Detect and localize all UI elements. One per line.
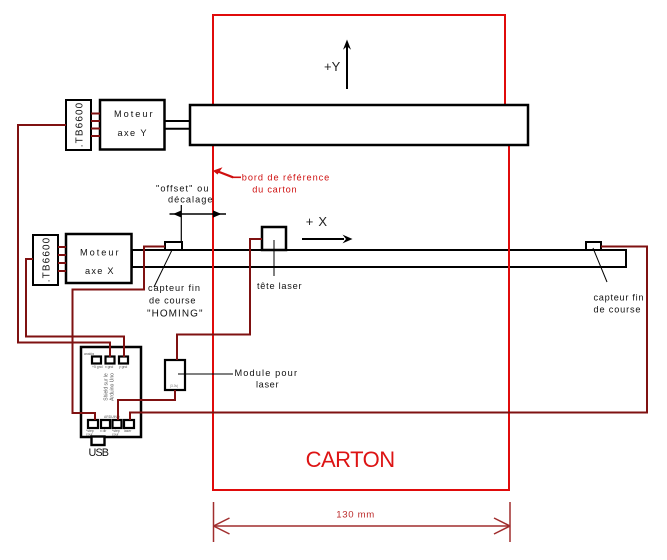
- svg-text:axe X: axe X: [85, 266, 114, 276]
- svg-text:capteur fin: capteur fin: [594, 293, 644, 303]
- svg-text:cour: cour: [112, 433, 119, 437]
- svg-text:+Y: +Y: [324, 59, 341, 74]
- svg-text:CARTON: CARTON: [306, 447, 396, 472]
- svg-text:laser: laser: [256, 380, 279, 390]
- svg-text:USB: USB: [89, 447, 110, 459]
- svg-text:(3.3v): (3.3v): [170, 384, 178, 388]
- svg-text:"offset" ou: "offset" ou: [156, 184, 209, 194]
- svg-text:y gnd: y gnd: [119, 365, 127, 369]
- svg-text:analóg: analóg: [84, 352, 94, 356]
- svg-text:tête laser: tête laser: [257, 281, 302, 291]
- svg-text:+5 gnd: +5 gnd: [92, 365, 103, 369]
- svg-text:+ X: + X: [306, 214, 328, 229]
- svg-text:décalage: décalage: [168, 194, 213, 204]
- svg-text:cour: cour: [86, 433, 93, 437]
- svg-text:x gnd: x gnd: [105, 365, 113, 369]
- svg-text:.TB6600: .TB6600: [74, 102, 85, 147]
- svg-text:de course: de course: [149, 295, 196, 305]
- svg-text:du carton: du carton: [252, 185, 296, 195]
- svg-text:130 mm: 130 mm: [336, 509, 374, 520]
- svg-text:Moteur: Moteur: [114, 109, 153, 119]
- svg-text:bord de référence: bord de référence: [242, 172, 329, 182]
- svg-text:Moteur: Moteur: [80, 247, 119, 257]
- svg-text:axe Y: axe Y: [118, 128, 147, 138]
- svg-text:.TB6600: .TB6600: [41, 237, 52, 282]
- svg-text:Module pour: Module pour: [235, 368, 298, 378]
- svg-text:capteur fin: capteur fin: [148, 283, 200, 293]
- svg-text:laser: laser: [124, 429, 132, 433]
- svg-text:de course: de course: [594, 305, 641, 315]
- svg-text:x dir: x dir: [100, 429, 107, 433]
- svg-text:"HOMING": "HOMING": [147, 309, 203, 320]
- svg-text:Arduino Uno: Arduino Uno: [110, 373, 116, 401]
